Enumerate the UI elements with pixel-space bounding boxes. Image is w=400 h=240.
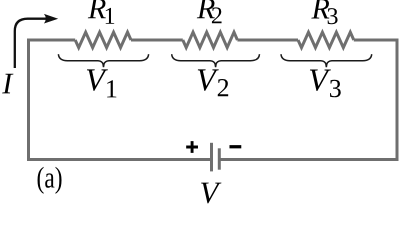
underbrace V1 xyxy=(58,54,148,67)
battery V negative plate xyxy=(218,148,221,169)
battery plus sign xyxy=(186,141,198,153)
svg-text:V: V xyxy=(199,175,221,210)
wire bottom-left to battery xyxy=(29,158,212,159)
battery minus sign xyxy=(229,145,241,148)
svg-text:2: 2 xyxy=(211,3,223,29)
underbrace V2 xyxy=(172,54,260,67)
underbrace V3 xyxy=(281,54,372,67)
resistor R3 xyxy=(298,32,354,47)
svg-text:(a): (a) xyxy=(37,162,63,195)
resistor R1 xyxy=(75,32,131,47)
svg-text:3: 3 xyxy=(329,74,342,103)
svg-text:1: 1 xyxy=(105,74,118,103)
svg-text:1: 1 xyxy=(104,4,116,30)
current arrowhead xyxy=(44,14,58,24)
resistor R2 xyxy=(183,32,238,47)
wire bottom-right from battery xyxy=(219,158,397,159)
wire right side xyxy=(354,40,397,160)
wire between R2 and R3 xyxy=(237,39,298,42)
svg-text:3: 3 xyxy=(327,4,339,30)
svg-text:2: 2 xyxy=(217,73,230,102)
current arrow xyxy=(15,19,46,68)
wire top-left segment xyxy=(29,40,76,160)
wire between R1 and R2 xyxy=(131,39,183,42)
battery V positive plate xyxy=(210,143,213,172)
